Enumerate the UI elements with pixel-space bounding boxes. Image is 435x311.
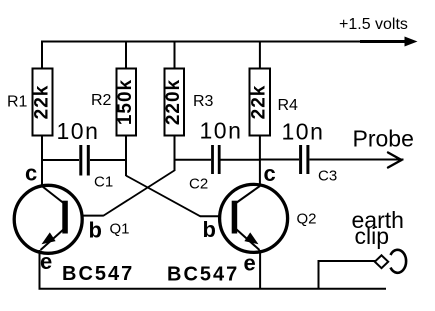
svg-text:10n: 10n: [57, 118, 100, 144]
probe arrowhead (open chevron): [388, 153, 402, 168]
svg-text:clip: clip: [355, 223, 390, 249]
wire: +1.5V top rail: [41, 41, 404, 43]
svg-text:c: c: [264, 161, 276, 186]
wire: rail stub down to R2 top: [125, 42, 127, 70]
svg-text:220k: 220k: [163, 79, 184, 125]
wire: R4 bottom down to Q2 collector: [259, 136, 261, 187]
svg-text:22k: 22k: [32, 85, 53, 120]
svg-text:Probe: Probe: [353, 126, 414, 152]
svg-text:C1: C1: [94, 174, 113, 191]
earth clip connector (diamond): [375, 255, 388, 268]
svg-text:R2: R2: [91, 92, 112, 109]
wire: rail stub down to R4 top: [259, 42, 261, 70]
wire: R2 bottom down through cap row: [125, 136, 127, 177]
wire: Q1 base lead: [64, 215, 104, 217]
capacitor C3: [301, 145, 308, 174]
svg-text:C3: C3: [318, 168, 337, 185]
arrowhead of +1.5V supply rail: [405, 37, 418, 47]
wire: earth clip lead: [318, 260, 376, 262]
wire: Q2 emitter down to ground rail: [259, 250, 261, 289]
svg-text:22k: 22k: [249, 85, 270, 120]
wire: C3 right plate to probe: [310, 159, 404, 161]
svg-text:b: b: [89, 218, 102, 243]
svg-text:e: e: [244, 251, 256, 276]
svg-text:Q1: Q1: [110, 221, 130, 238]
wire: Q1 emitter down to ground rail: [39, 250, 41, 289]
wire: thick arrow shaft of supply rail: [360, 40, 405, 43]
wire: rail stub down to R3 top: [174, 42, 176, 70]
svg-text:BC547: BC547: [167, 264, 239, 286]
wire: earth clip riser: [318, 261, 320, 289]
svg-text:e: e: [40, 249, 52, 274]
svg-text:BC547: BC547: [62, 263, 134, 285]
svg-text:R3: R3: [193, 93, 214, 110]
svg-text:+1.5 volts: +1.5 volts: [339, 16, 408, 33]
wire: R1 bottom down to Q1 collector: [41, 136, 43, 187]
svg-text:c: c: [25, 161, 37, 186]
wire: Q1 collector to C1 left plate: [42, 159, 79, 161]
svg-text:150k: 150k: [115, 79, 136, 125]
wire: Q2 base lead: [200, 215, 235, 217]
wire: Q2 collector node to C3 left plate: [260, 159, 299, 161]
resistor R3: [163, 69, 184, 136]
svg-text:10n: 10n: [282, 119, 325, 145]
transistor Q2 (BC547): [220, 184, 288, 252]
wire: bottom ground rail: [39, 288, 387, 290]
earth clip jaw (C shape): [391, 250, 407, 273]
wire: R3 node to C2 left plate: [175, 159, 212, 161]
svg-text:R1: R1: [7, 94, 28, 111]
svg-text:10n: 10n: [200, 118, 243, 144]
wire: rail corner down to R1 top: [41, 41, 43, 70]
wire: cross-couple diagonal R3 node to Q1 base: [104, 170, 175, 215]
wire: cross-couple diagonal R2 node to Q2 base: [126, 176, 200, 217]
svg-text:R4: R4: [278, 97, 299, 114]
wire: C2 right plate to Q2 collector node: [221, 159, 260, 161]
wire: R3 bottom down through cap row: [174, 136, 176, 172]
resistor R1: [32, 69, 53, 136]
transistor Q1 (BC547): [14, 185, 82, 253]
resistor R4: [249, 69, 270, 136]
wire: C1 right plate to R2 node: [90, 159, 126, 161]
capacitor C2: [213, 145, 220, 174]
svg-text:b: b: [203, 217, 216, 242]
capacitor C1: [81, 145, 89, 176]
resistor R2: [115, 69, 136, 136]
svg-text:Q2: Q2: [297, 211, 317, 228]
svg-text:C2: C2: [189, 176, 208, 193]
